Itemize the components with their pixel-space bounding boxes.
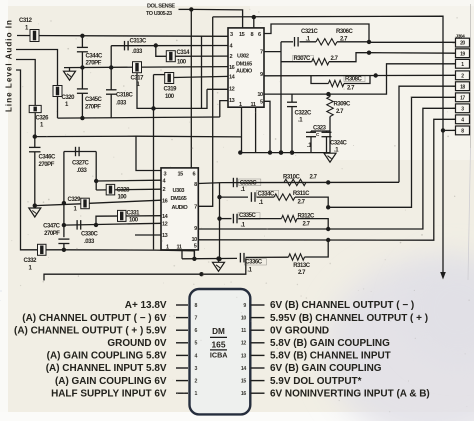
svg-text:R313C: R313C xyxy=(293,263,311,269)
svg-text:15: 15 xyxy=(241,379,247,385)
svg-text:C334C: C334C xyxy=(258,191,276,197)
svg-text:1: 1 xyxy=(166,244,169,250)
svg-text:(A) GAIN COUPLING 6V: (A) GAIN COUPLING 6V xyxy=(55,376,167,387)
svg-text:5: 5 xyxy=(260,99,263,105)
svg-text:11: 11 xyxy=(177,244,182,250)
svg-text:C326: C326 xyxy=(36,116,50,122)
svg-text:6V (B) GAIN COUPLING: 6V (B) GAIN COUPLING xyxy=(270,363,382,374)
svg-text:270PF: 270PF xyxy=(85,105,101,111)
svg-text:5: 5 xyxy=(195,341,198,347)
svg-text:AUDIO: AUDIO xyxy=(172,205,189,211)
svg-text:8: 8 xyxy=(195,303,198,309)
svg-text:C318C: C318C xyxy=(116,93,134,99)
svg-text:6: 6 xyxy=(195,328,198,334)
svg-text:6: 6 xyxy=(258,32,261,38)
svg-text:U303: U303 xyxy=(173,188,185,194)
svg-text:2.7: 2.7 xyxy=(331,56,339,62)
svg-text:.033: .033 xyxy=(132,49,143,55)
svg-text:13: 13 xyxy=(229,98,235,104)
svg-text:13: 13 xyxy=(241,353,247,359)
svg-text:C313C: C313C xyxy=(130,39,148,45)
svg-text:10: 10 xyxy=(191,237,197,243)
svg-text:13: 13 xyxy=(162,233,168,239)
svg-text:6V (B) CHANNEL OUTPUT ( − ): 6V (B) CHANNEL OUTPUT ( − ) xyxy=(270,300,414,311)
svg-text:Line Level Audio In: Line Level Audio In xyxy=(5,19,14,112)
svg-text:6: 6 xyxy=(193,171,196,177)
svg-text:U302: U302 xyxy=(237,53,249,59)
svg-text:6V NONINVERTING INPUT (A & B): 6V NONINVERTING INPUT (A & B) xyxy=(270,388,430,399)
svg-text:DM: DM xyxy=(212,327,225,336)
svg-text:16: 16 xyxy=(162,198,168,204)
svg-text:100: 100 xyxy=(165,94,175,100)
svg-text:3: 3 xyxy=(230,32,233,38)
svg-text:A+ 13.8V: A+ 13.8V xyxy=(125,300,167,311)
svg-text:C328: C328 xyxy=(117,188,131,194)
svg-text:5.8V (B) CHANNEL INPUT: 5.8V (B) CHANNEL INPUT xyxy=(270,351,391,362)
svg-text:(A) GAIN COUPLING 5.8V: (A) GAIN COUPLING 5.8V xyxy=(47,351,167,362)
svg-text:C336C: C336C xyxy=(245,259,263,265)
svg-text:2: 2 xyxy=(195,379,198,385)
svg-text:C329: C329 xyxy=(68,197,82,203)
svg-text:(A) CHANNEL OUTPUT ( − ) 6V: (A) CHANNEL OUTPUT ( − ) 6V xyxy=(22,313,167,324)
svg-text:C331: C331 xyxy=(127,211,141,217)
svg-text:10: 10 xyxy=(257,92,263,98)
svg-text:270PF: 270PF xyxy=(39,162,55,168)
svg-text:20: 20 xyxy=(460,41,465,47)
svg-text:AUDIO: AUDIO xyxy=(236,68,253,74)
svg-text:19: 19 xyxy=(460,51,465,57)
svg-text:9: 9 xyxy=(243,303,246,309)
svg-text:C322C: C322C xyxy=(295,111,313,117)
svg-text:R306C: R306C xyxy=(336,29,354,35)
svg-text:3: 3 xyxy=(195,366,198,372)
svg-text:165: 165 xyxy=(212,340,226,350)
svg-text:11: 11 xyxy=(251,102,256,108)
svg-text:100: 100 xyxy=(118,195,128,201)
svg-text:18: 18 xyxy=(460,84,465,90)
svg-text:17: 17 xyxy=(460,95,465,101)
svg-text:.033: .033 xyxy=(84,239,95,245)
svg-text:9: 9 xyxy=(260,72,263,78)
svg-text:TO U305-23: TO U305-23 xyxy=(146,11,172,17)
svg-text:C346C: C346C xyxy=(39,155,57,161)
svg-text:15: 15 xyxy=(239,32,245,38)
svg-text:3: 3 xyxy=(164,171,167,177)
svg-text:C321C: C321C xyxy=(301,29,319,35)
svg-text:8: 8 xyxy=(194,182,197,188)
svg-text:14: 14 xyxy=(241,366,247,372)
svg-text:C335C: C335C xyxy=(239,213,257,219)
svg-text:C347C: C347C xyxy=(43,224,61,230)
svg-text:HALF SUPPLY INPUT 6V: HALF SUPPLY INPUT 6V xyxy=(51,388,167,399)
svg-text:270PF: 270PF xyxy=(86,61,102,67)
svg-text:.033: .033 xyxy=(116,101,127,107)
svg-text:100: 100 xyxy=(177,60,187,66)
svg-text:C330C: C330C xyxy=(81,232,99,238)
svg-text:12: 12 xyxy=(229,86,235,92)
svg-text:2.7: 2.7 xyxy=(347,86,355,92)
svg-text:DM165: DM165 xyxy=(171,196,187,202)
svg-text:ICBA: ICBA xyxy=(210,351,228,360)
svg-text:2: 2 xyxy=(230,54,233,60)
svg-text:4: 4 xyxy=(195,353,198,359)
svg-text:R311C: R311C xyxy=(293,191,310,197)
svg-text:10: 10 xyxy=(241,316,247,322)
svg-text:C327C: C327C xyxy=(72,161,90,167)
svg-text:C319: C319 xyxy=(164,87,178,93)
svg-text:R309C: R309C xyxy=(334,102,352,108)
svg-text:7: 7 xyxy=(260,50,263,56)
svg-text:1: 1 xyxy=(195,391,198,397)
svg-text:5: 5 xyxy=(194,244,197,250)
svg-text:2.7: 2.7 xyxy=(336,109,344,115)
svg-text:C314: C314 xyxy=(177,50,191,56)
svg-text:11: 11 xyxy=(241,328,246,334)
svg-text:GROUND 0V: GROUND 0V xyxy=(107,338,166,349)
svg-text:C320: C320 xyxy=(62,95,76,101)
svg-text:DM165: DM165 xyxy=(236,61,252,67)
svg-text:DOL SENSE: DOL SENSE xyxy=(147,4,175,10)
svg-text:C312: C312 xyxy=(19,18,33,24)
svg-text:C324C: C324C xyxy=(330,141,348,147)
svg-text:2: 2 xyxy=(163,187,166,193)
svg-text:R310C: R310C xyxy=(283,175,301,181)
svg-text:2.7: 2.7 xyxy=(303,221,311,227)
svg-text:7: 7 xyxy=(195,316,198,322)
svg-text:9: 9 xyxy=(194,226,197,232)
svg-text:5.8V (B) GAIN COUPLING: 5.8V (B) GAIN COUPLING xyxy=(270,338,390,349)
svg-text:C344C: C344C xyxy=(86,54,104,60)
svg-text:(A) CHANNEL INPUT 5.8V: (A) CHANNEL INPUT 5.8V xyxy=(46,363,167,374)
svg-text:.033: .033 xyxy=(77,168,88,174)
svg-text:(A) CHANNEL OUTPUT ( + ) 5.9V: (A) CHANNEL OUTPUT ( + ) 5.9V xyxy=(14,325,167,336)
svg-text:2.7: 2.7 xyxy=(298,270,306,276)
svg-text:16: 16 xyxy=(241,391,247,397)
svg-text:0V GROUND: 0V GROUND xyxy=(270,325,329,336)
svg-text:270PF: 270PF xyxy=(44,231,60,237)
svg-text:2.7: 2.7 xyxy=(298,199,306,205)
svg-text:100: 100 xyxy=(129,218,139,224)
svg-text:5.9V DOL OUTPUT*: 5.9V DOL OUTPUT* xyxy=(270,376,362,387)
svg-text:C323: C323 xyxy=(313,125,327,131)
svg-text:2.7: 2.7 xyxy=(340,36,348,42)
svg-text:12: 12 xyxy=(241,341,247,347)
svg-text:15: 15 xyxy=(178,171,184,177)
svg-text:1: 1 xyxy=(239,102,242,108)
svg-text:12: 12 xyxy=(162,222,168,228)
svg-text:16: 16 xyxy=(229,65,235,71)
svg-text:C332: C332 xyxy=(24,258,38,264)
svg-text:8: 8 xyxy=(251,32,254,38)
svg-text:2.7: 2.7 xyxy=(310,175,318,181)
svg-text:5.95V (B) CHANNEL OUTPUT ( + ): 5.95V (B) CHANNEL OUTPUT ( + ) xyxy=(270,313,428,324)
svg-text:7: 7 xyxy=(194,204,197,210)
